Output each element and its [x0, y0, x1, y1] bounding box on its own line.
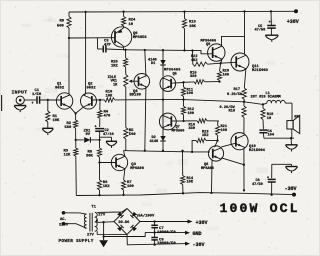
wire	[125, 50, 127, 58]
ground speaker	[286, 144, 298, 146]
node	[75, 139, 77, 141]
bridge diode	[117, 212, 124, 219]
wire Q6 emitter	[122, 27, 124, 29]
svg-text:1K2: 1K2	[111, 64, 119, 68]
wire Q1 collector	[68, 38, 70, 94]
wire	[76, 139, 84, 141]
wire	[270, 11, 272, 25]
resistor R22	[193, 62, 208, 66]
svg-text:)5A/100V: )5A/100V	[136, 214, 155, 219]
wire	[183, 97, 185, 100]
resistor R23	[196, 138, 206, 142]
wire	[270, 28, 272, 35]
svg-text:MPSA66: MPSA66	[172, 130, 185, 134]
arrow	[185, 242, 190, 246]
wire	[75, 128, 77, 140]
scan edge artifact	[0, 95, 2, 111]
wire	[183, 115, 185, 121]
svg-text:560: 560	[57, 25, 65, 29]
svg-text:27V: 27V	[98, 213, 106, 217]
node	[162, 150, 164, 152]
wire	[103, 237, 105, 241]
capacitor C1	[36, 96, 38, 104]
node feedback	[99, 99, 101, 101]
wire Q9 emitter	[221, 59, 222, 63]
node	[218, 80, 220, 82]
ground zener node	[106, 140, 117, 142]
node	[144, 49, 146, 51]
transistor Q2	[81, 93, 97, 109]
wire	[162, 100, 164, 115]
wire	[125, 67, 127, 75]
wire	[162, 141, 164, 151]
wire AC bottom	[64, 224, 87, 229]
node	[243, 189, 245, 191]
node Q3 base	[98, 161, 100, 163]
diode D1	[160, 60, 165, 65]
wire Q11 collector	[244, 11, 246, 54]
node rail junction Q11	[243, 10, 245, 12]
node rail junction Q2	[84, 11, 86, 13]
wire	[162, 65, 164, 76]
wire center tap to GND line	[104, 222, 146, 236]
wire	[106, 48, 126, 51]
node	[153, 243, 155, 245]
svg-text:0.26/5W: 0.26/5W	[227, 92, 243, 97]
svg-text:330: 330	[189, 127, 195, 131]
svg-text:R24: R24	[129, 19, 137, 23]
svg-text:MJ15004: MJ15004	[249, 149, 266, 153]
wire Q11 emitter	[244, 69, 246, 88]
svg-text:47/50: 47/50	[255, 28, 266, 33]
wire AC top	[64, 213, 87, 214]
wire	[68, 12, 70, 17]
svg-text:+: +	[267, 176, 269, 180]
wire bias lower rail	[124, 151, 211, 152]
ground C6	[286, 166, 298, 168]
resistor R5	[124, 128, 128, 140]
svg-text:27V: 27V	[87, 233, 95, 237]
svg-text:47P: 47P	[104, 44, 112, 48]
node -38V terminal	[292, 193, 296, 197]
svg-text:47/50: 47/50	[252, 182, 263, 187]
svg-text:104: 104	[268, 134, 275, 138]
resistor R14	[181, 176, 185, 185]
wire	[162, 115, 164, 136]
wire	[205, 81, 220, 83]
wire	[123, 12, 125, 17]
capacitor C4	[259, 129, 267, 131]
speaker cone	[293, 115, 300, 133]
wire GND out	[145, 231, 186, 233]
wire Q8 to Q10 base	[221, 143, 236, 147]
wire	[219, 81, 221, 82]
arrow	[188, 220, 193, 224]
transistor Q4	[134, 74, 150, 90]
wire	[162, 77, 164, 90]
svg-text:100: 100	[127, 185, 135, 189]
svg-text:100W OCL: 100W OCL	[220, 201, 300, 216]
wire Q2 base	[92, 99, 100, 101]
wire	[183, 100, 185, 107]
svg-text:100: 100	[221, 129, 227, 133]
resistor R24	[122, 17, 126, 27]
node	[270, 10, 272, 12]
wire Q8 collector	[211, 160, 214, 192]
wire	[75, 156, 78, 195]
wire secondary top to bridge	[97, 209, 127, 213]
node	[122, 10, 124, 12]
resistor R8	[97, 148, 101, 157]
node	[183, 49, 185, 51]
svg-text:10: 10	[129, 23, 134, 27]
wire bridge bottom to -38V	[127, 234, 186, 244]
wire wiper	[131, 80, 139, 82]
node +38V terminal	[294, 9, 298, 13]
wire	[100, 99, 104, 101]
wire	[75, 140, 77, 148]
wire	[99, 190, 101, 195]
svg-text:AC.: AC.	[60, 218, 67, 222]
node AC terminal 1	[62, 211, 66, 215]
bridge diode	[130, 212, 137, 219]
transformer secondary	[95, 212, 97, 217]
svg-text:+38V: +38V	[196, 220, 208, 226]
wire	[125, 87, 127, 128]
resistor R2	[74, 120, 78, 128]
resistor VR1	[124, 75, 128, 88]
wire	[262, 133, 265, 139]
svg-text:D3-D6: D3-D6	[119, 221, 130, 225]
wire	[162, 50, 164, 60]
node	[122, 194, 124, 196]
wire	[217, 121, 219, 126]
transistor Q5	[160, 76, 176, 92]
capacitor C5	[267, 25, 276, 27]
svg-text:10K: 10K	[187, 181, 194, 185]
wire Q3 emitter	[124, 169, 125, 180]
wire	[220, 63, 221, 71]
node	[290, 137, 292, 139]
svg-text:Q5: Q5	[173, 72, 177, 76]
wire VAS base	[69, 37, 115, 39]
transistor Q6	[111, 27, 131, 47]
node	[191, 49, 193, 51]
wire	[182, 185, 184, 194]
node	[153, 220, 155, 222]
transistor Q7	[159, 113, 176, 130]
node	[182, 81, 184, 83]
wire	[47, 100, 49, 111]
wire	[264, 137, 294, 139]
node Q9 emitter	[220, 62, 222, 64]
wire Q4 emitter	[145, 87, 146, 151]
node zener	[98, 139, 100, 141]
svg-text:+: +	[95, 125, 97, 129]
node	[47, 99, 49, 101]
wire	[184, 81, 195, 83]
transistor Q1	[56, 93, 72, 109]
svg-text:47/16: 47/16	[103, 132, 114, 137]
wire	[291, 129, 293, 138]
wire	[99, 140, 101, 148]
transistor Q11	[231, 53, 249, 71]
node	[216, 139, 218, 141]
node	[182, 120, 184, 122]
input jack	[16, 96, 24, 104]
resistor R16	[197, 119, 207, 123]
node emitter junction	[74, 112, 76, 114]
wire	[192, 140, 196, 152]
node Q1 collector / VAS drive	[68, 37, 70, 39]
wire Q9 collector	[222, 36, 245, 45]
wire	[99, 131, 101, 140]
wire	[154, 233, 156, 238]
svg-text:1/50: 1/50	[32, 92, 42, 97]
node	[181, 150, 183, 152]
svg-text:220V: 220V	[59, 224, 69, 228]
resistor R7	[122, 180, 126, 190]
resistor R1	[46, 111, 50, 122]
node	[162, 49, 164, 51]
svg-text:-38V: -38V	[285, 186, 297, 192]
wire	[123, 190, 125, 195]
wire	[19, 104, 21, 105]
node L1/R19	[262, 103, 264, 105]
diode D2	[160, 136, 165, 141]
svg-text:10K: 10K	[53, 119, 61, 123]
svg-text:BD139: BD139	[130, 93, 142, 97]
resistor R9	[67, 17, 71, 29]
wire	[243, 118, 245, 134]
wire Q7 base	[171, 120, 183, 122]
wire	[97, 38, 99, 49]
arrow	[185, 231, 190, 235]
wire	[243, 102, 245, 106]
svg-text:560: 560	[65, 126, 73, 130]
svg-text:4148: 4148	[150, 140, 159, 144]
resistor R26	[124, 58, 128, 67]
wire Q3 collector	[124, 151, 125, 157]
inductor L1	[267, 100, 272, 103]
node	[210, 192, 212, 194]
svg-text:9V: 9V	[86, 133, 91, 137]
resistor R11	[181, 87, 185, 97]
resistor R21	[216, 126, 220, 136]
wire Q10 emitter	[243, 149, 245, 191]
node	[162, 98, 164, 100]
svg-text:560: 560	[129, 133, 137, 137]
wire	[184, 120, 198, 122]
resistor R18	[242, 106, 246, 118]
resistor R13	[182, 19, 186, 29]
capacitor C2	[95, 128, 104, 130]
wire	[99, 100, 101, 110]
svg-text:GND: GND	[193, 231, 202, 237]
wire	[206, 139, 218, 141]
svg-text:R13: R13	[189, 21, 197, 25]
svg-text:20T #20 DIA8MM: 20T #20 DIA8MM	[251, 95, 281, 99]
svg-text:100: 100	[223, 73, 229, 77]
wire center tap to bridge	[97, 221, 114, 224]
transistor Q3	[111, 154, 127, 170]
node	[270, 194, 272, 196]
node	[153, 231, 155, 233]
svg-text:MPSU56: MPSU56	[133, 36, 147, 40]
resistor R15	[194, 80, 205, 84]
node	[98, 194, 100, 196]
svg-text:R18: R18	[229, 109, 235, 113]
wire	[263, 103, 267, 104]
wire +38V out	[140, 221, 189, 223]
transformer primary	[84, 214, 86, 218]
transistor Q8	[208, 146, 223, 161]
svg-text:330: 330	[190, 75, 196, 79]
node	[124, 49, 126, 51]
wire	[290, 138, 292, 145]
svg-text:100: 100	[188, 112, 194, 116]
svg-text:+: +	[32, 102, 34, 106]
bridge diode	[130, 225, 137, 232]
wire Q6 collector	[122, 46, 124, 50]
wire	[100, 136, 112, 138]
wire	[99, 157, 101, 180]
svg-text:INPUT: INPUT	[12, 90, 28, 96]
bridge diode	[117, 225, 124, 232]
node	[183, 10, 185, 12]
svg-text:10000/50: 10000/50	[157, 241, 176, 246]
wire Q5 base	[171, 82, 184, 85]
node output	[182, 98, 184, 100]
svg-text:10K: 10K	[106, 94, 114, 98]
ground	[265, 34, 278, 36]
wire	[99, 118, 101, 127]
node	[182, 192, 184, 194]
svg-text:MJ15003: MJ15003	[252, 69, 269, 73]
svg-text:10K: 10K	[189, 25, 197, 29]
wire	[208, 62, 221, 65]
node AC terminal 2	[62, 222, 66, 226]
svg-text:9632: 9632	[55, 86, 65, 90]
wire Q4 collector	[145, 50, 146, 76]
wire	[243, 100, 245, 102]
wire secondary bottom to bridge	[97, 231, 127, 234]
transformer core	[89, 213, 91, 232]
wire input	[24, 99, 36, 101]
wire	[262, 120, 264, 130]
wire	[182, 151, 184, 176]
svg-text:MPSA06: MPSA06	[130, 167, 144, 171]
transistor Q9	[208, 44, 225, 61]
svg-text:Q9: Q9	[206, 43, 210, 47]
wire	[154, 228, 156, 233]
wire Q3 base	[100, 162, 116, 164]
svg-text:D1: D1	[151, 62, 155, 66]
wire	[192, 51, 194, 65]
node center tap branch	[102, 221, 104, 223]
resistor R19	[261, 108, 265, 119]
ground input	[14, 105, 26, 107]
wire	[272, 163, 292, 165]
svg-text:1K2: 1K2	[191, 59, 197, 63]
wire	[47, 122, 49, 128]
node	[102, 235, 104, 237]
zener ZD1	[84, 137, 90, 143]
wire	[125, 139, 127, 151]
arrow VR1 wiper	[129, 80, 133, 83]
wire Q2 collector to rail	[84, 12, 85, 96]
resistor R10	[104, 98, 115, 102]
node output junction	[243, 101, 245, 103]
svg-text:12K: 12K	[64, 154, 72, 158]
node	[144, 150, 146, 152]
bridge rectifier D3-D6	[114, 209, 140, 235]
svg-text:T1: T1	[91, 206, 96, 210]
ground power supply	[99, 240, 108, 247]
wire	[271, 182, 273, 195]
capacitor C3	[102, 46, 104, 53]
wire Q11 base	[221, 61, 236, 64]
wire	[291, 164, 293, 166]
ground R1	[42, 127, 53, 129]
resistor R12	[181, 106, 185, 115]
svg-text:10: 10	[267, 117, 271, 121]
svg-text:R9: R9	[60, 20, 65, 24]
svg-text:100: 100	[187, 92, 193, 96]
wire	[154, 240, 156, 245]
svg-text:-38V: -38V	[193, 242, 205, 248]
wire -38V rail	[76, 193, 294, 196]
wire	[291, 103, 293, 121]
svg-text:30K: 30K	[86, 154, 94, 158]
wire	[154, 222, 156, 226]
wire	[207, 120, 219, 122]
wire	[75, 113, 77, 120]
resistor R3	[74, 148, 78, 156]
wire	[162, 89, 164, 100]
wire	[40, 99, 61, 101]
transistor Q10	[231, 133, 248, 150]
capacitor C6	[268, 178, 276, 180]
resistor R17	[242, 88, 246, 100]
wire to Q8 base	[215, 141, 218, 148]
node	[191, 151, 193, 153]
svg-text:R17: R17	[234, 88, 240, 92]
node	[243, 164, 245, 166]
speaker	[287, 121, 293, 129]
svg-text:+: +	[269, 21, 271, 25]
svg-text:9632: 9632	[87, 86, 97, 90]
wire	[184, 12, 186, 19]
wire output line	[115, 100, 263, 105]
resistor R4	[98, 110, 102, 118]
wire Q8 emitter	[221, 158, 244, 165]
wire +38V top rail	[69, 10, 296, 13]
wire VAS output node	[124, 50, 213, 54]
wire	[91, 139, 100, 141]
resistor R20	[217, 71, 221, 81]
svg-text:10000/50: 10000/50	[157, 230, 176, 235]
resistor R6	[97, 180, 101, 190]
wire	[262, 104, 264, 108]
capacitor C7	[151, 224, 158, 226]
svg-text:1K2: 1K2	[202, 134, 208, 138]
wire emitters	[70, 107, 76, 113]
wire	[183, 82, 185, 87]
svg-text:1K2: 1K2	[103, 185, 111, 189]
capacitor C8	[151, 237, 158, 239]
svg-text:+38V: +38V	[287, 19, 299, 25]
